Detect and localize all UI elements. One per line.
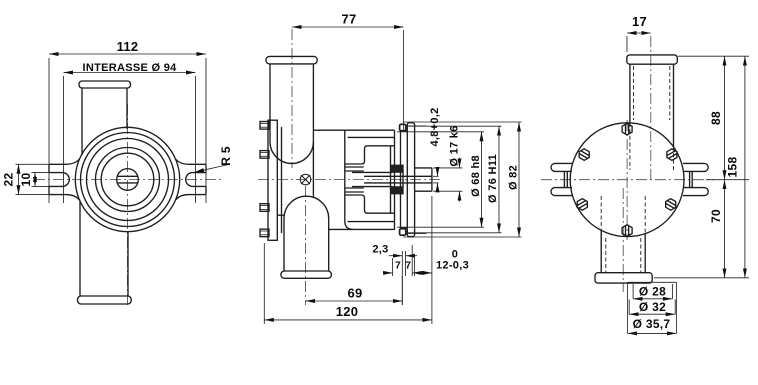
dim 69	[306, 276, 403, 305]
lower cavity line	[348, 221, 395, 223]
svg-text:120: 120	[336, 304, 359, 319]
svg-text:Ø 28: Ø 28	[639, 285, 666, 299]
left ear slot	[49, 173, 69, 187]
bottom hose flange	[78, 296, 132, 304]
dim 112	[49, 54, 206, 203]
plate bolt 2	[260, 151, 269, 159]
shaft slot	[364, 175, 432, 177]
shaft	[415, 167, 432, 169]
dim O28	[633, 298, 672, 300]
lower seal rings	[345, 187, 364, 189]
svg-text:69: 69	[347, 286, 362, 301]
body outline	[313, 129, 394, 131]
centre mark	[300, 174, 311, 185]
horizontal centerline	[541, 179, 714, 181]
svg-text:R 5: R 5	[219, 146, 233, 166]
top tube	[629, 64, 631, 123]
inner shaft lines	[352, 171, 393, 173]
svg-text:70: 70	[709, 209, 723, 223]
top tube flange	[627, 55, 678, 64]
left mounting ear outline	[49, 159, 80, 164]
dim O35,7	[628, 332, 677, 334]
shaft slot lines	[117, 175, 137, 177]
mounting plate	[268, 120, 277, 240]
bottom tube	[600, 230, 602, 272]
dim O82	[518, 122, 520, 237]
svg-text:Ø 17 k6: Ø 17 k6	[449, 125, 461, 166]
dim 88	[724, 56, 726, 180]
horizontal centerline	[34, 179, 221, 181]
dim 88 158 70 extension lines	[654, 56, 749, 278]
svg-text:Ø 68 h8: Ø 68 h8	[470, 155, 482, 197]
dim 10	[32, 173, 50, 187]
body circle 3	[87, 139, 169, 221]
screw lower-left	[575, 197, 590, 211]
svg-text:10: 10	[19, 173, 33, 187]
body circle 2	[81, 133, 175, 227]
upper seal rings	[345, 166, 364, 168]
bottom hose port tube	[79, 201, 81, 296]
screw upper-left	[577, 147, 592, 161]
vertical centerline	[626, 120, 628, 240]
screw top	[622, 123, 632, 135]
dim INTERASSE 94	[64, 73, 196, 204]
upper cavity line	[348, 136, 395, 138]
dim 77	[292, 27, 404, 131]
top port flange	[266, 56, 317, 64]
svg-text:Ø 35,7: Ø 35,7	[633, 317, 671, 331]
dim 70	[724, 180, 726, 278]
svg-text:158: 158	[725, 157, 739, 178]
svg-text:112: 112	[117, 39, 139, 54]
hub front faces	[390, 146, 392, 165]
screw upper-right	[664, 147, 679, 161]
plate bolt 3	[260, 204, 269, 212]
top port centerline	[650, 36, 652, 180]
top port centerline	[291, 29, 293, 168]
right mounting ear outline	[176, 159, 207, 164]
pump body outer circle	[75, 127, 179, 231]
bottom port flange	[281, 271, 332, 278]
dim 2,3	[389, 251, 417, 305]
body circle 4	[96, 148, 160, 212]
svg-text:Ø 82: Ø 82	[508, 165, 520, 190]
svg-text:88: 88	[709, 111, 723, 125]
svg-text:Ø 76 H11: Ø 76 H11	[487, 154, 499, 203]
svg-text:17: 17	[632, 14, 647, 29]
svg-text:12-0,3: 12-0,3	[436, 260, 469, 272]
plate bolt 4	[260, 229, 269, 237]
top hose port tube	[81, 88, 83, 155]
rear body face	[394, 130, 396, 230]
dim O32	[629, 313, 675, 315]
right ear slot	[186, 173, 206, 187]
volute rear wall	[345, 131, 353, 230]
dim O76 H11	[498, 126, 500, 233]
svg-text:2,3: 2,3	[372, 244, 388, 256]
svg-text:7: 7	[395, 261, 401, 272]
svg-text:INTERASSE Ø 94: INTERASSE Ø 94	[82, 62, 177, 74]
svg-text:22: 22	[1, 173, 15, 187]
dim stack extension lines	[397, 122, 522, 237]
rear bottom bolt	[400, 229, 406, 235]
left ear web	[563, 171, 565, 187]
dim 22	[16, 164, 50, 194]
dim O17 k6	[459, 158, 461, 202]
top port tube	[269, 64, 271, 142]
lower seal pocket	[345, 195, 395, 213]
dim O68 h8	[481, 132, 483, 227]
right ear web	[689, 171, 691, 187]
dim 4,8+0,2	[437, 167, 439, 192]
svg-text:4,8+0,2: 4,8+0,2	[429, 107, 441, 146]
right ear prong lower	[683, 188, 708, 196]
cover circle	[570, 123, 684, 237]
left ear prong upper	[551, 163, 572, 171]
body circle 5	[101, 153, 154, 206]
rear cover plate	[407, 123, 414, 237]
dim R5 leader	[195, 165, 229, 173]
dim 7 7	[383, 245, 421, 276]
screw bottom	[622, 225, 632, 237]
svg-text:7: 7	[405, 261, 411, 272]
vertical centerline	[127, 104, 129, 306]
svg-text:Ø 32: Ø 32	[639, 300, 666, 314]
screw lower-right	[663, 197, 678, 211]
hub section blocks	[391, 165, 404, 173]
dim 17	[627, 33, 651, 52]
dim 120	[264, 243, 432, 324]
bottom port centerline	[622, 188, 624, 292]
shaft end circle	[117, 169, 139, 191]
bottom tube flange	[595, 273, 652, 283]
rear top bolt	[400, 124, 406, 130]
plate bolt 1	[260, 122, 269, 130]
left ear prong lower	[551, 188, 572, 196]
bottom port centerline	[305, 186, 307, 305]
shaft axis centerline	[258, 179, 442, 181]
right ear prong upper	[683, 163, 708, 171]
dim 158	[744, 56, 746, 278]
dim 12-0,3	[415, 196, 432, 324]
svg-text:77: 77	[341, 12, 356, 27]
bottom port tube	[284, 196, 329, 218]
dim table frame	[628, 282, 677, 333]
upper seal pocket	[345, 146, 395, 164]
top hose flange	[79, 81, 131, 88]
